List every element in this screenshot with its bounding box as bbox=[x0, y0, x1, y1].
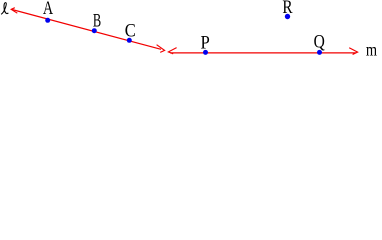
point B bbox=[92, 28, 97, 33]
svg-text:Q: Q bbox=[314, 32, 326, 52]
arrowhead left of line m bbox=[168, 48, 176, 54]
point R bbox=[285, 14, 290, 19]
svg-text:B: B bbox=[93, 12, 101, 32]
arrowhead left of line ell bbox=[11, 8, 17, 14]
point C bbox=[127, 38, 132, 43]
line ell (through A, B, C) bbox=[11, 8, 164, 53]
wire bbox=[170, 52, 356, 54]
svg-text:C: C bbox=[125, 22, 136, 42]
point P bbox=[203, 50, 208, 55]
wire bbox=[12, 10, 161, 50]
svg-text:P: P bbox=[201, 34, 210, 54]
arrowhead right of line m bbox=[349, 48, 357, 55]
label ell (script l) bbox=[1, 3, 8, 15]
line m (through P, Q) bbox=[168, 48, 357, 55]
svg-text:A: A bbox=[43, 0, 54, 19]
point Q bbox=[317, 50, 322, 55]
arrowhead right of line ell bbox=[157, 45, 165, 53]
svg-text:R: R bbox=[282, 0, 293, 18]
svg-text:m: m bbox=[366, 39, 378, 59]
point A bbox=[45, 18, 50, 23]
